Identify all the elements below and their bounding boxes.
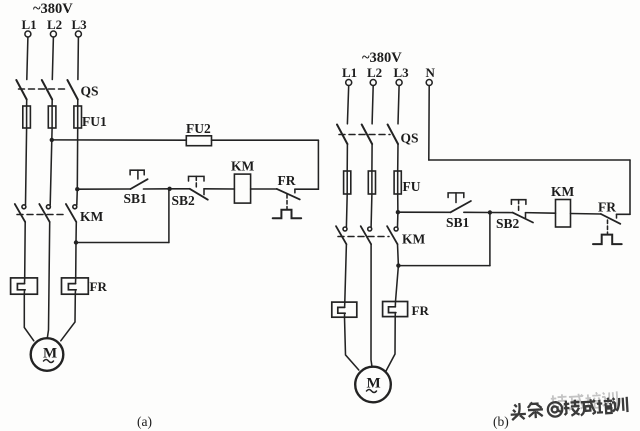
thermal contact FR (a) actuator stem dashed: [286, 195, 288, 210]
contactor KM (a) linkage dashed: [17, 214, 67, 216]
coil KM (a): [234, 174, 250, 203]
pushbutton SB2 (b) blade NO: [513, 213, 533, 223]
contactor KM (b) pole3 fixed contact circle: [394, 227, 398, 231]
wire L3 heater to motor (b): [386, 317, 395, 371]
contactor KM (a) pole1 fixed contact circle: [22, 205, 26, 209]
switch QS (b) pole 2 blade: [362, 125, 372, 145]
pushbutton SB2 (b) cap: [511, 200, 526, 205]
contactor KM (a) pole3 blade: [66, 204, 76, 222]
wire L3 dot to FR heater (a): [75, 243, 77, 278]
switch QS (b) linkage dashed: [339, 134, 390, 136]
fuse FU pole2 (b): [368, 171, 375, 194]
thermal contact FR (b) blade NC: [601, 214, 620, 224]
svg-text:SB1: SB1: [124, 191, 148, 206]
svg-text:L2: L2: [367, 65, 382, 80]
wire FU2 line right segment (a): [212, 139, 319, 141]
wire control line tap to SB1 (a): [77, 188, 130, 190]
wire L1 KM to FR heater (a): [24, 222, 27, 278]
contactor KM (b) linkage dashed: [338, 236, 389, 238]
wire L3 tap to KM contact (a): [76, 189, 79, 205]
svg-text:FR: FR: [278, 173, 296, 188]
fuse FU1 pole3 (a): [74, 106, 82, 128]
switch QS (a) linkage dashed: [19, 88, 69, 90]
wire L1 drop to QS (a): [27, 37, 28, 80]
contactor KM (b) pole1 blade: [336, 226, 346, 244]
contactor KM (a) pole1 blade: [15, 204, 25, 222]
svg-text:~380V: ~380V: [33, 1, 73, 17]
thermal relay FR heater box 1 (b): [332, 302, 357, 317]
svg-text:KM: KM: [231, 159, 255, 174]
wire holding branch vertical (b): [489, 213, 491, 266]
coil KM (b): [556, 200, 571, 228]
pushbutton SB1 (b) cap: [448, 193, 464, 198]
pushbutton SB1 (a) blade NC: [131, 179, 148, 189]
svg-text:QS: QS: [81, 84, 99, 99]
pushbutton SB2 (a) cap: [189, 176, 205, 181]
pushbutton SB1 (a) stem: [137, 170, 139, 179]
wire L2 KM down to motor (b): [371, 244, 372, 367]
switch QS (a) pole 2 blade: [42, 80, 52, 100]
fuse FU pole1 (b): [344, 171, 351, 194]
wire FR to right rail (b): [617, 213, 631, 215]
thermal contact FR (a) actuator bump: [273, 210, 302, 219]
contactor KM (b) pole2 fixed contact circle: [368, 227, 372, 231]
wire KM coil to FR contact (b): [571, 213, 602, 216]
wire QS to FU pole3 (b): [397, 144, 399, 171]
node junction dot SB1-SB2 (b): [488, 210, 492, 214]
fuse FU1 pole2 (a): [48, 106, 56, 128]
fuse FU pole3 (b): [394, 171, 401, 194]
svg-text:L3: L3: [394, 65, 410, 80]
switch QS (b) pole 3 blade: [388, 125, 398, 145]
wire N drop (b): [428, 86, 430, 161]
wire L2 drop to QS (b): [372, 86, 373, 124]
wire holding branch horizontal (b): [398, 265, 490, 267]
fuse FU2 (a): [186, 136, 211, 146]
wire QS to FU pole2 (b): [371, 144, 373, 171]
pushbutton SB2 (a) right terminal tick: [203, 189, 205, 195]
wire L1 KM to FR heater (b): [345, 244, 347, 302]
terminal circle L3 (a): [75, 31, 81, 37]
thermal contact FR (b) actuator bump: [593, 235, 622, 245]
terminal circle L2 (b): [370, 80, 376, 86]
thermal contact FR (b) right tick: [616, 214, 618, 218]
svg-text:SB2: SB2: [172, 193, 196, 208]
wire QS to FU1 pole2 (a): [51, 100, 53, 107]
wire SB2 to KM coil (a): [204, 188, 234, 190]
wire L1 FU to KM contact (b): [345, 194, 348, 227]
wire L3 FU to control tap (b): [397, 194, 399, 212]
terminal circle L3 (b): [396, 80, 402, 86]
wire N rail horizontal (b): [429, 159, 630, 161]
contactor KM (b) pole2 blade: [361, 226, 371, 244]
wire L2 drop to QS (a): [52, 37, 53, 80]
svg-text:FR: FR: [90, 279, 108, 294]
svg-text:SB2: SB2: [496, 216, 520, 231]
motor M (a): [31, 338, 64, 371]
switch QS (a) pole 3 blade: [67, 80, 77, 100]
thermal contact FR (b) actuator stem dashed: [607, 220, 609, 234]
svg-text:(b): (b): [493, 414, 509, 429]
wire L3 KM to holding dot (b): [397, 244, 400, 265]
svg-text:QS: QS: [401, 131, 419, 146]
pushbutton SB1 (b) stem: [455, 193, 457, 203]
contactor KM (a) pole2 blade: [39, 204, 49, 222]
node junction dot FU2 tap on L2 (a): [50, 138, 54, 142]
pushbutton SB1 (b) blade NC: [451, 201, 471, 212]
wire L2 FU to KM contact (b): [370, 194, 373, 227]
terminal circle L1 (b): [346, 80, 352, 86]
fuse FU1 pole1 (a): [23, 106, 31, 128]
wire KM coil to FR contact (a): [251, 188, 277, 190]
wire L1 heater to motor (a): [24, 294, 34, 341]
wire SB1 to junction (a): [143, 188, 169, 190]
wire junction to SB2 (b): [490, 212, 513, 214]
svg-text:FU1: FU1: [82, 114, 107, 129]
wire right rail vertical (b): [629, 160, 631, 214]
contactor KM (b) pole3 blade: [387, 226, 397, 244]
wire L3 FU1 to control tap (a): [76, 128, 78, 189]
wire QS to FU1 pole3 (a): [77, 100, 79, 107]
thermal contact FR (a) right tick: [294, 189, 296, 193]
wire junction to SB2 (a): [170, 188, 190, 190]
wire right rail vertical (a): [317, 140, 319, 189]
svg-text:FU: FU: [403, 179, 421, 194]
svg-text:N: N: [426, 65, 436, 80]
wire SB1 to junction (b): [464, 211, 490, 213]
node junction dot holding branch on L3 (b): [396, 263, 400, 267]
svg-text:KM: KM: [80, 209, 104, 224]
wire control line tap to SB1 (b): [398, 211, 451, 213]
svg-text:FR: FR: [598, 200, 616, 215]
wire holding branch vertical (a): [168, 189, 170, 243]
svg-text:(a): (a): [137, 414, 152, 429]
wire L3 dot to FR heater (b): [396, 266, 399, 302]
wire holding branch horizontal (a): [76, 242, 169, 244]
thermal relay FR heater box 2 (b): [383, 302, 408, 317]
node junction dot holding branch on L3 (a): [74, 240, 78, 244]
pushbutton SB2 (a) stem dashed: [195, 176, 197, 187]
pushbutton SB2 (a) blade NO: [190, 189, 208, 200]
contactor KM (a) pole2 fixed contact circle: [46, 205, 50, 209]
terminal circle N (b): [426, 80, 432, 86]
watermark light 技成培训: [551, 391, 618, 411]
svg-text:FU2: FU2: [186, 121, 211, 136]
terminal circle L2 (a): [50, 31, 56, 37]
svg-text:~380V: ~380V: [362, 50, 402, 66]
switch QS (a) pole 1 blade: [16, 80, 26, 100]
wire FU2 line left segment (a): [52, 139, 187, 141]
wire QS to FU pole1 (b): [346, 144, 348, 171]
svg-text:L3: L3: [72, 17, 88, 32]
wire L3 tap to KM contact (b): [397, 212, 399, 227]
svg-text:L1: L1: [342, 65, 357, 80]
svg-text:FR: FR: [412, 303, 430, 318]
pushbutton SB2 (b) stem dashed: [518, 200, 520, 211]
node junction dot SB1-SB2 (a): [167, 187, 171, 191]
wire L3 drop to QS (a): [77, 37, 80, 80]
switch QS (b) pole 1 blade: [337, 125, 347, 145]
thermal contact FR (a) blade NC: [277, 189, 300, 200]
svg-text:SB1: SB1: [446, 215, 470, 230]
wire SB2 to KM coil (b): [526, 212, 556, 215]
svg-text:L2: L2: [47, 17, 62, 32]
wire L3 drop to QS (b): [398, 86, 399, 124]
svg-text:KM: KM: [551, 184, 575, 199]
wire FR to right rail (a): [295, 188, 319, 190]
svg-text:L1: L1: [22, 17, 37, 32]
thermal relay FR heater box 2 (a): [62, 278, 89, 294]
contactor KM (a) pole3 fixed contact circle: [73, 205, 77, 209]
wire QS to FU1 pole1 (a): [26, 100, 28, 107]
wire L1 heater to motor (b): [345, 317, 359, 370]
motor M (b): [355, 367, 391, 403]
svg-text:KM: KM: [402, 232, 426, 247]
wire L1 FU1 to KM contact (a): [26, 128, 27, 205]
watermark dark 头条@技成培训: [510, 397, 628, 420]
pushbutton SB1 (a) cap: [130, 170, 144, 175]
wire L1 drop to QS (b): [347, 86, 348, 124]
thermal relay FR heater box 1 (a): [11, 278, 38, 294]
pushbutton SB2 (b) right terminal tick: [525, 213, 527, 218]
wire L3 KM to holding branch dot (a): [75, 222, 77, 243]
contactor KM (b) pole1 fixed contact circle: [343, 227, 347, 231]
node junction dot control tap on L3 (a): [75, 187, 79, 191]
wire L2 FU1 to KM contact (a): [50, 128, 52, 205]
terminal circle L1 (a): [25, 31, 31, 37]
wire L2 KM down to motor (a): [47, 222, 49, 338]
wire L3 heater to motor (a): [61, 294, 76, 341]
node junction dot control tap on L3 (b): [396, 210, 400, 214]
